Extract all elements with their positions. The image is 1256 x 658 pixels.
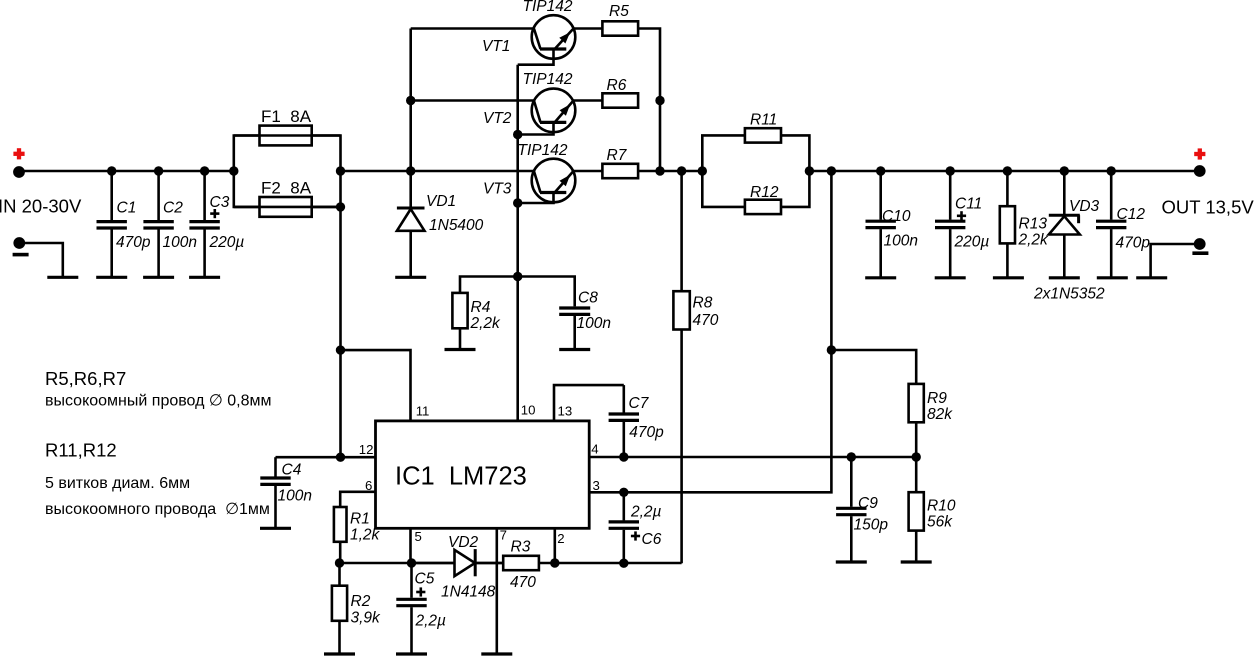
svg-text:TIP142: TIP142 [518,142,568,159]
svg-text:R13: R13 [1019,216,1048,233]
svg-text:C9: C9 [858,495,878,512]
svg-text:R12: R12 [750,184,779,201]
svg-text:12: 12 [359,442,374,457]
svg-text:высокоомного провода ∅1мм: высокоомного провода ∅1мм [45,501,270,518]
svg-text:F1 8A: F1 8A [261,107,312,126]
svg-text:1N4148: 1N4148 [441,584,496,601]
svg-text:C3: C3 [210,194,230,211]
svg-text:2x1N5352: 2x1N5352 [1033,286,1105,303]
svg-text:C11: C11 [955,196,982,213]
svg-text:2,2k: 2,2k [470,315,502,332]
svg-text:5 витков диам. 6мм: 5 витков диам. 6мм [45,475,190,492]
svg-text:470p: 470p [629,424,664,441]
svg-text:R3: R3 [511,539,531,556]
svg-text:2,2µ: 2,2µ [630,504,662,521]
svg-text:5: 5 [415,529,422,544]
svg-text:R2: R2 [351,593,371,610]
svg-text:2,2k: 2,2k [1018,232,1050,249]
svg-text:100n: 100n [577,315,611,332]
svg-text:2: 2 [557,531,564,546]
svg-text:R5,R6,R7: R5,R6,R7 [45,368,126,389]
svg-text:R11: R11 [750,112,777,129]
svg-text:470p: 470p [1116,235,1151,252]
svg-text:C6: C6 [642,531,662,548]
svg-text:VT1: VT1 [482,38,510,55]
svg-text:100n: 100n [163,234,197,251]
svg-text:C7: C7 [629,395,650,412]
svg-text:VD1: VD1 [426,193,456,210]
svg-text:R5: R5 [609,3,629,20]
svg-text:TIP142: TIP142 [523,71,573,88]
svg-text:C5: C5 [415,571,435,588]
svg-text:4: 4 [591,441,598,456]
svg-text:C10: C10 [882,208,911,225]
svg-text:470: 470 [693,312,719,329]
svg-text:C2: C2 [163,200,183,217]
svg-text:470: 470 [510,574,536,591]
svg-text:R7: R7 [607,147,628,164]
svg-text:82k: 82k [927,406,953,423]
svg-text:VT3: VT3 [483,180,512,197]
svg-text:R10: R10 [927,498,956,515]
svg-text:150p: 150p [854,516,889,533]
svg-text:VT2: VT2 [483,110,512,127]
svg-text:R8: R8 [693,295,713,312]
svg-text:F2 8A: F2 8A [261,179,312,198]
svg-text:13: 13 [558,404,573,419]
svg-text:10: 10 [521,403,536,418]
svg-text:2,2µ: 2,2µ [415,612,447,629]
svg-text:R9: R9 [927,390,947,407]
svg-text:6: 6 [365,478,372,493]
svg-text:VD2: VD2 [448,534,479,551]
svg-text:470p: 470p [116,234,151,251]
svg-text:IN 20-30V: IN 20-30V [0,195,82,216]
svg-text:C12: C12 [1117,206,1146,223]
svg-text:TIP142: TIP142 [523,0,573,15]
svg-text:56k: 56k [927,514,953,531]
svg-text:R6: R6 [607,77,627,94]
svg-text:3,9k: 3,9k [351,610,382,627]
svg-text:C8: C8 [578,289,598,306]
svg-text:C4: C4 [282,462,302,479]
svg-text:R1: R1 [350,510,370,527]
svg-text:OUT 13,5V: OUT 13,5V [1162,197,1255,218]
svg-text:100n: 100n [884,233,918,250]
svg-text:R11,R12: R11,R12 [45,439,117,460]
svg-text:1,2k: 1,2k [350,526,381,543]
svg-text:высокоомный провод ∅ 0,8мм: высокоомный провод ∅ 0,8мм [45,392,272,409]
svg-text:220µ: 220µ [209,234,245,251]
svg-text:R4: R4 [471,299,491,316]
svg-text:7: 7 [500,528,507,543]
svg-text:220µ: 220µ [954,233,990,250]
svg-text:100n: 100n [278,487,312,504]
svg-text:3: 3 [593,478,600,493]
svg-text:1N5400: 1N5400 [429,217,484,234]
svg-text:IC1 LM723: IC1 LM723 [395,462,527,490]
svg-text:VD3: VD3 [1069,198,1100,215]
svg-text:11: 11 [416,403,430,418]
svg-text:C1: C1 [117,200,137,217]
